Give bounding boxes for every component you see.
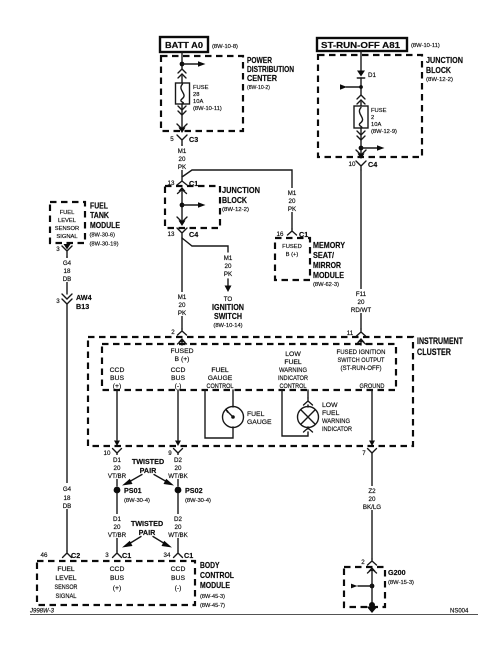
- connector chevrons in junction block: [357, 95, 365, 106]
- wire C4 down toward cluster with branch: [181, 238, 183, 329]
- connector C1 pin 34 entry into body control module: [164, 551, 194, 560]
- svg-text:(8W-30-6): (8W-30-6): [90, 233, 116, 239]
- splice PS01: [114, 486, 150, 504]
- svg-text:TANK: TANK: [90, 211, 109, 220]
- svg-text:20: 20: [289, 198, 296, 205]
- svg-text:MODULE: MODULE: [90, 221, 120, 230]
- destination label TO IGNITION SWITCH (8W-10-14): [212, 296, 244, 329]
- svg-text:LOW: LOW: [322, 402, 338, 409]
- svg-text:C4: C4: [189, 230, 198, 239]
- net label LOW FUEL WARNING INDICATOR CONTROL: [278, 351, 308, 390]
- svg-text:20: 20: [358, 299, 365, 306]
- fuse value label FUSE 28 10A (8W-10-11): [193, 85, 222, 112]
- wire junction to ground: [371, 584, 373, 604]
- wire label M1 20 PK (upper): [174, 146, 191, 171]
- svg-text:LEVEL: LEVEL: [55, 575, 76, 582]
- fuse value label FUSE 2 10A (8W-12-9): [371, 108, 397, 135]
- svg-text:SEAT/: SEAT/: [313, 251, 335, 260]
- inline connector AW4 B13 pin 3: [56, 293, 91, 311]
- feed arrow into wire (junction block): [340, 84, 363, 90]
- svg-text:G200: G200: [388, 568, 406, 577]
- svg-text:SENSOR: SENSOR: [55, 226, 79, 232]
- wire label M1 20 PK (ignition branch): [224, 255, 233, 278]
- module title JUNCTION BLOCK (right): [426, 56, 463, 83]
- wire BATT A0 down into PDC: [181, 52, 183, 69]
- svg-text:FUSED: FUSED: [170, 348, 193, 355]
- svg-text:(8W-30-4): (8W-30-4): [185, 498, 211, 504]
- svg-text:3: 3: [56, 298, 60, 305]
- svg-text:(8W-10-8): (8W-10-8): [212, 44, 238, 50]
- svg-text:VT/BR: VT/BR: [108, 473, 127, 480]
- svg-text:(8W-10-11): (8W-10-11): [193, 106, 222, 112]
- connector chevron below lamp: [304, 427, 313, 432]
- ground G200 dashed box: [344, 567, 385, 607]
- connector C1 pin 16 entry into memory seat/mirror module: [277, 229, 309, 239]
- wire CCD BUS (+) inside cluster: [116, 390, 118, 440]
- wire branch to memory seat/mirror module: [182, 170, 292, 229]
- svg-text:JUNCTION: JUNCTION: [222, 186, 260, 195]
- gauge M1 fuel gauge: [223, 407, 244, 428]
- svg-text:M1: M1: [178, 148, 187, 155]
- svg-text:M1: M1: [288, 190, 297, 197]
- module title POWER DISTRIBUTION CENTER: [247, 56, 294, 91]
- wire ground inside cluster: [371, 390, 373, 440]
- svg-text:INDICATOR: INDICATOR: [278, 375, 308, 382]
- net label FUSED B (+): [170, 348, 193, 363]
- node junction dot with feed arrow right: [359, 145, 385, 151]
- power distribution center dashed box: [161, 56, 243, 131]
- svg-text:G4: G4: [63, 260, 72, 267]
- svg-text:J998W-3: J998W-3: [29, 609, 55, 615]
- svg-text:CONTROL: CONTROL: [200, 571, 234, 580]
- svg-text:GAUGE: GAUGE: [208, 375, 233, 382]
- svg-text:BODY: BODY: [200, 561, 220, 570]
- svg-text:3: 3: [56, 246, 60, 253]
- ground label G200 (8W-15-3): [388, 568, 414, 586]
- svg-text:(8W-12-2): (8W-12-2): [222, 207, 249, 213]
- junction block (left) dashed box: [165, 186, 220, 228]
- svg-text:CCD: CCD: [171, 566, 186, 573]
- svg-text:20: 20: [225, 263, 232, 270]
- connector C2 pin 46 entry into body control module: [41, 551, 81, 560]
- svg-text:IGNITION: IGNITION: [212, 303, 244, 312]
- svg-text:C1: C1: [122, 551, 131, 560]
- svg-text:MIRROR: MIRROR: [313, 261, 341, 270]
- wire C3 down to C1 junction block: [181, 145, 183, 177]
- splice PS02: [175, 486, 211, 504]
- wire cluster pin9 to splice PS02: [177, 453, 179, 486]
- connector chevron above lamp: [304, 398, 313, 407]
- svg-text:(+): (+): [113, 585, 122, 592]
- connector pin 9 exit from cluster: [168, 441, 182, 458]
- wire fuel gauge to fused b(+): [232, 390, 234, 407]
- svg-text:BK/LG: BK/LG: [363, 504, 381, 511]
- svg-text:INDICATOR: INDICATOR: [322, 426, 352, 433]
- svg-text:(8W-10-11): (8W-10-11): [411, 43, 440, 49]
- svg-text:18: 18: [64, 495, 71, 502]
- connector chevrons in PDC: [178, 69, 186, 83]
- net label FUEL GAUGE CONTROL: [207, 367, 234, 390]
- fuel tank module dashed box: [50, 202, 85, 243]
- svg-text:(-): (-): [175, 383, 182, 390]
- svg-text:PAIR: PAIR: [140, 466, 157, 475]
- wire fuse to C3 exit: [181, 104, 183, 129]
- svg-text:WARNING: WARNING: [279, 367, 307, 374]
- wire label G4 18 DB: [59, 258, 75, 283]
- svg-text:(8W-62-3): (8W-62-3): [313, 282, 339, 288]
- svg-text:B (+): B (+): [175, 356, 190, 363]
- wire PS02 to body control module: [177, 493, 179, 551]
- connector C4 pin 10 exit from junction block: [349, 150, 378, 170]
- svg-text:(8W-10-2): (8W-10-2): [247, 85, 270, 91]
- instrument cluster outer dashed box: [88, 337, 413, 446]
- svg-text:10: 10: [349, 161, 356, 168]
- battery feed box BATT A0: [160, 37, 208, 52]
- svg-text:C3: C3: [189, 135, 198, 144]
- connector C4 pin 13 exit from junction block: [168, 217, 199, 239]
- svg-text:FUSED IGNITION: FUSED IGNITION: [337, 349, 386, 356]
- svg-text:FUEL: FUEL: [322, 410, 340, 417]
- svg-text:10A: 10A: [193, 99, 203, 105]
- svg-text:FUEL: FUEL: [90, 202, 108, 211]
- svg-text:D1: D1: [368, 72, 376, 79]
- svg-text:28: 28: [193, 92, 199, 98]
- wire splice down to body control module: [66, 304, 68, 551]
- svg-text:WT/BK: WT/BK: [168, 532, 188, 539]
- svg-text:PS02: PS02: [185, 486, 203, 495]
- svg-text:ST-RUN-OFF A81: ST-RUN-OFF A81: [321, 41, 401, 50]
- svg-text:CONTROL: CONTROL: [207, 383, 234, 390]
- svg-text:D1: D1: [113, 516, 121, 523]
- svg-text:C4: C4: [368, 160, 377, 169]
- svg-text:PK: PK: [178, 310, 187, 317]
- module title MEMORY SEAT/MIRROR MODULE: [313, 241, 345, 288]
- svg-text:(+): (+): [113, 383, 122, 390]
- svg-text:10A: 10A: [371, 122, 381, 128]
- svg-text:C2: C2: [71, 551, 80, 560]
- svg-text:RD/WT: RD/WT: [351, 307, 371, 314]
- svg-text:PS01: PS01: [124, 486, 142, 495]
- arrow to ignition switch: [225, 279, 232, 292]
- svg-text:(-): (-): [175, 585, 182, 592]
- svg-text:BUS: BUS: [110, 375, 124, 382]
- svg-text:D2: D2: [174, 457, 182, 464]
- svg-text:20: 20: [369, 496, 376, 503]
- wire label F11 20 RD/WT: [350, 289, 373, 314]
- svg-text:DB: DB: [63, 503, 72, 510]
- svg-text:BUS: BUS: [171, 575, 185, 582]
- svg-text:BLOCK: BLOCK: [426, 66, 451, 75]
- connector C1 pin 3 entry into body control module: [105, 551, 131, 560]
- svg-text:JUNCTION: JUNCTION: [426, 56, 463, 65]
- svg-text:LEVEL: LEVEL: [58, 218, 77, 224]
- svg-text:PAIR: PAIR: [139, 528, 156, 537]
- svg-text:PK: PK: [178, 164, 187, 171]
- connector chevrons below fuse: [178, 106, 186, 115]
- wire cluster pin10 to splice PS01: [116, 453, 118, 486]
- svg-text:LOW: LOW: [285, 351, 301, 358]
- svg-text:34: 34: [164, 552, 171, 559]
- svg-text:18: 18: [64, 268, 71, 275]
- footer plate line: [30, 614, 478, 616]
- node junction dot with feed arrow (G200): [351, 584, 374, 589]
- svg-text:5: 5: [170, 136, 174, 143]
- svg-text:TO: TO: [224, 296, 233, 303]
- svg-text:SIGNAL: SIGNAL: [56, 234, 78, 240]
- wire lamp to fused b(+): [307, 390, 309, 398]
- svg-text:FUEL: FUEL: [247, 411, 265, 418]
- net label CCD BUS (-): [171, 367, 186, 390]
- wire PS01 to body control module: [116, 493, 118, 551]
- memory seat/mirror module dashed box: [275, 238, 310, 280]
- svg-text:13: 13: [168, 231, 175, 238]
- diode D1: [357, 71, 376, 96]
- svg-text:7: 7: [362, 450, 366, 457]
- svg-text:(8W-10-14): (8W-10-14): [213, 323, 242, 329]
- footer code NS004: [450, 609, 469, 615]
- wire cluster pin7 to ground G200: [371, 453, 373, 559]
- svg-text:C1: C1: [184, 551, 193, 560]
- wire fuel tank module to splice: [66, 257, 68, 294]
- svg-text:(8W-12-9): (8W-12-9): [371, 129, 397, 135]
- connector pin 2 entry into G200: [361, 559, 376, 584]
- ground symbol: [367, 602, 378, 613]
- wire label D2 20 WT/BK (upper): [167, 455, 189, 480]
- connector pin 10 exit from cluster: [104, 441, 122, 458]
- wire feed arrow to other circuits: [182, 61, 206, 67]
- wire low fuel warning control loop: [282, 390, 308, 436]
- svg-text:TWISTED: TWISTED: [131, 519, 163, 528]
- net label FUSED IGNITION SWITCH OUTPUT (ST-RUN-OFF): [337, 349, 386, 372]
- lamp low fuel warning indicator: [298, 407, 319, 428]
- svg-text:CCD: CCD: [110, 367, 125, 374]
- svg-text:20: 20: [179, 302, 186, 309]
- wire fuse to C4 exit: [360, 128, 362, 155]
- module title FUEL TANK MODULE: [90, 202, 121, 248]
- svg-text:2: 2: [361, 559, 365, 566]
- svg-text:20: 20: [175, 524, 182, 531]
- svg-text:DB: DB: [63, 276, 72, 283]
- svg-text:PK: PK: [288, 206, 297, 213]
- svg-text:SIGNAL: SIGNAL: [56, 593, 77, 600]
- svg-text:WT/BK: WT/BK: [168, 473, 188, 480]
- wire label M1 20 PK (lower): [174, 292, 191, 317]
- svg-text:(8W-15-3): (8W-15-3): [388, 580, 414, 586]
- module title BODY CONTROL MODULE: [200, 561, 234, 609]
- wire ST-RUN-OFF into junction block: [360, 51, 362, 71]
- svg-text:(8W-30-4): (8W-30-4): [124, 498, 150, 504]
- component label LOW FUEL WARNING INDICATOR: [322, 402, 352, 433]
- power feed box ST-RUN-OFF A81: [317, 38, 407, 51]
- svg-text:Z2: Z2: [368, 488, 376, 495]
- svg-text:M1: M1: [224, 255, 233, 262]
- wire CCD BUS (-) inside cluster: [177, 390, 179, 440]
- svg-text:20: 20: [114, 524, 121, 531]
- connector pin 11 entry into instrument cluster: [347, 329, 366, 345]
- svg-text:(8W-45-3): (8W-45-3): [200, 594, 225, 600]
- footer code J998W-3: [29, 609, 55, 615]
- svg-text:VT/BR: VT/BR: [108, 532, 127, 539]
- svg-text:FUEL: FUEL: [57, 566, 75, 573]
- wire label M1 20 PK (memory branch): [284, 188, 301, 213]
- svg-text:M1: M1: [178, 294, 187, 301]
- svg-text:CENTER: CENTER: [247, 74, 277, 83]
- svg-text:20: 20: [179, 156, 186, 163]
- connector C1 pin 13 entry into junction block: [168, 178, 199, 203]
- svg-text:FUSE: FUSE: [193, 85, 209, 91]
- svg-text:NS004: NS004: [450, 609, 469, 615]
- svg-text:WARNING: WARNING: [322, 418, 350, 425]
- svg-text:FUSED: FUSED: [282, 244, 302, 250]
- svg-text:PK: PK: [224, 271, 233, 278]
- svg-text:BLOCK: BLOCK: [222, 196, 247, 205]
- svg-text:G4: G4: [63, 486, 72, 493]
- svg-text:GROUND: GROUND: [360, 383, 385, 390]
- svg-text:POWER: POWER: [247, 56, 272, 65]
- wire label D2 20 WT/BK (lower): [167, 514, 189, 539]
- svg-text:46: 46: [41, 552, 48, 559]
- svg-text:SWITCH OUTPUT: SWITCH OUTPUT: [338, 357, 385, 364]
- svg-text:SWITCH: SWITCH: [214, 312, 242, 321]
- wire C4 pin10 down to instrument cluster pin 11: [360, 170, 362, 329]
- svg-text:D1: D1: [113, 457, 121, 464]
- svg-text:FUEL: FUEL: [60, 210, 76, 216]
- component label FUEL GAUGE: [247, 411, 272, 426]
- wire label Z2 20 BK/LG: [361, 486, 383, 511]
- svg-text:MEMORY: MEMORY: [313, 241, 345, 250]
- wire fuel gauge control loop: [205, 390, 233, 438]
- svg-text:FUEL: FUEL: [284, 359, 302, 366]
- svg-text:BUS: BUS: [171, 375, 185, 382]
- svg-text:FUEL: FUEL: [211, 367, 229, 374]
- net label FUEL LEVEL SENSOR SIGNAL (BCM): [55, 566, 78, 600]
- module title INSTRUMENT CLUSTER: [417, 336, 463, 357]
- svg-text:B (+): B (+): [286, 252, 299, 258]
- svg-text:FUSE: FUSE: [371, 108, 387, 114]
- note TWISTED PAIR (lower) with pointer arrows: [122, 519, 172, 548]
- wire label G4 18 DB (lower): [59, 483, 75, 510]
- svg-text:SENSOR: SENSOR: [55, 584, 78, 591]
- connector C3 pin 5 exit from PDC: [170, 124, 198, 145]
- svg-text:INSTRUMENT: INSTRUMENT: [417, 336, 463, 346]
- svg-text:2: 2: [371, 115, 374, 121]
- fuse 28 10A: [176, 83, 190, 104]
- wire label D1 20 VT/BR (lower): [106, 514, 128, 539]
- svg-text:AW4: AW4: [76, 293, 92, 302]
- svg-text:20: 20: [175, 465, 182, 472]
- svg-text:(8W-30-19): (8W-30-19): [90, 242, 119, 248]
- svg-text:CONTROL: CONTROL: [280, 383, 307, 390]
- svg-text:TWISTED: TWISTED: [132, 457, 164, 466]
- svg-text:(ST-RUN-OFF): (ST-RUN-OFF): [341, 365, 382, 372]
- node junction dot with feed arrow (left junction block): [180, 202, 206, 222]
- reference label (8W-10-11): [411, 43, 440, 49]
- svg-text:D2: D2: [174, 516, 182, 523]
- wire branch to ignition switch: [182, 238, 228, 252]
- wire label D1 20 VT/BR (upper): [106, 455, 128, 480]
- connector chevrons below fuse 2: [357, 131, 365, 140]
- module title JUNCTION BLOCK (left): [222, 186, 260, 213]
- svg-text:MODULE: MODULE: [200, 581, 230, 590]
- svg-text:CCD: CCD: [171, 367, 186, 374]
- svg-text:DISTRIBUTION: DISTRIBUTION: [247, 65, 294, 74]
- svg-text:GAUGE: GAUGE: [247, 419, 272, 426]
- svg-text:(8W-12-2): (8W-12-2): [426, 77, 453, 83]
- svg-text:BATT A0: BATT A0: [165, 41, 204, 50]
- svg-text:3: 3: [105, 552, 109, 559]
- junction block (right) dashed box: [318, 55, 422, 157]
- svg-text:CLUSTER: CLUSTER: [417, 347, 451, 357]
- svg-text:(8W-45-7): (8W-45-7): [200, 603, 225, 609]
- svg-text:2: 2: [171, 329, 175, 336]
- svg-text:MODULE: MODULE: [313, 271, 344, 280]
- svg-text:CCD: CCD: [110, 566, 125, 573]
- net label GROUND: [360, 383, 385, 390]
- instrument cluster inner circuit dashed box: [102, 344, 396, 390]
- connector pin 7 exit from cluster: [362, 441, 376, 458]
- svg-text:B13: B13: [76, 302, 89, 311]
- connector pin 3 exit from fuel tank module: [56, 244, 72, 257]
- connector pin 2 entry into instrument cluster: [171, 329, 186, 345]
- reference label (8W-10-8): [212, 44, 238, 50]
- svg-text:F11: F11: [356, 291, 367, 298]
- net label CCD BUS (-) (BCM): [171, 566, 186, 592]
- svg-text:BUS: BUS: [110, 575, 124, 582]
- body control module dashed box: [37, 561, 195, 605]
- note TWISTED PAIR (upper) with pointer arrows: [122, 457, 174, 486]
- net label CCD BUS (+): [110, 367, 125, 390]
- svg-text:20: 20: [114, 465, 121, 472]
- net label CCD BUS (+) (BCM): [110, 566, 125, 592]
- fuse 2 10A: [354, 106, 368, 128]
- node junction dot in PDC: [180, 62, 185, 67]
